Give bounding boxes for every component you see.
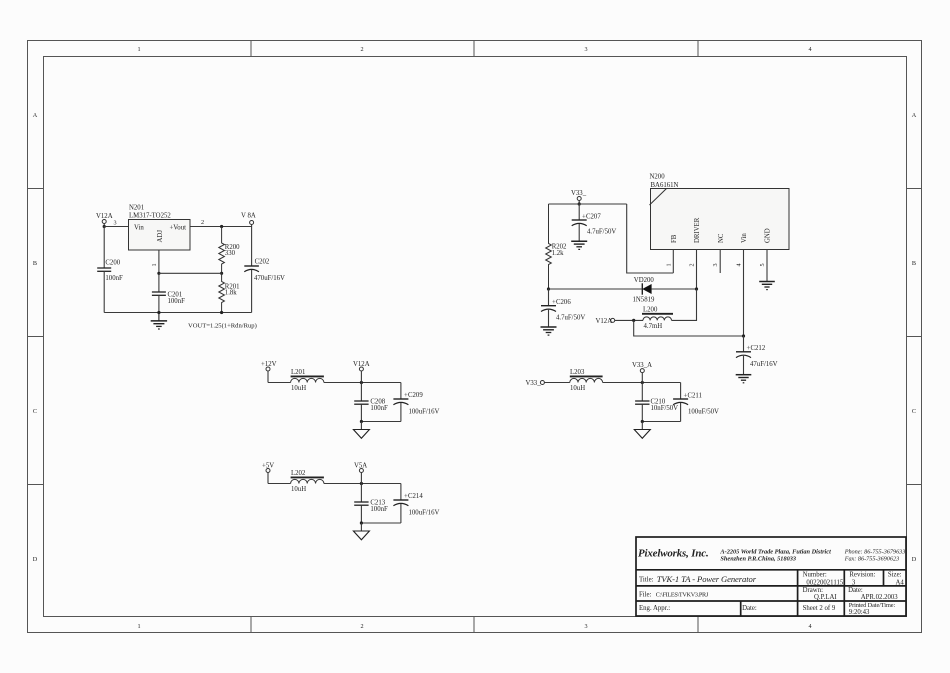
svg-text:10nF/50V: 10nF/50V: [651, 405, 679, 412]
capacitor C211: [673, 383, 719, 422]
resistor R202: [546, 204, 567, 289]
svg-text:Date:: Date:: [742, 605, 757, 612]
svg-text:100nF: 100nF: [168, 298, 186, 305]
svg-text:V33_A: V33_A: [632, 362, 652, 369]
capacitor C206: [541, 289, 585, 327]
svg-text:C212: C212: [751, 345, 766, 352]
svg-text:Revision:: Revision:: [849, 571, 875, 578]
node V8A: [241, 213, 256, 227]
svg-text:Vin: Vin: [741, 233, 748, 243]
svg-text:V33_: V33_: [526, 380, 542, 387]
node V12A: [353, 361, 370, 383]
svg-text:TVK-1 TA - Power Generator: TVK-1 TA - Power Generator: [657, 574, 757, 584]
svg-text:FB: FB: [671, 234, 678, 243]
svg-text:VOUT=1.25(1+Rdn/Rup): VOUT=1.25(1+Rdn/Rup): [188, 323, 257, 330]
svg-text:LM317-TO252: LM317-TO252: [129, 213, 171, 220]
svg-text:C202: C202: [255, 259, 270, 266]
node V33_: [571, 190, 587, 204]
svg-text:100uF/50V: 100uF/50V: [688, 408, 719, 415]
svg-text:Vin: Vin: [134, 225, 144, 232]
svg-text:N200: N200: [650, 174, 666, 181]
capacitor C208: [354, 383, 388, 422]
junction: [220, 225, 223, 228]
svg-text:1.8k: 1.8k: [225, 290, 237, 297]
svg-text:C209: C209: [408, 392, 423, 399]
ground (earth) C212: [736, 375, 752, 383]
ground (triangle): [353, 422, 369, 439]
svg-text:100uF/16V: 100uF/16V: [409, 509, 440, 516]
wire: [324, 483, 401, 485]
junction: [641, 381, 644, 384]
wire ADJ to divider: [159, 272, 222, 274]
svg-text:C211: C211: [688, 393, 702, 400]
inductor L201: [291, 369, 324, 392]
svg-text:100nF: 100nF: [370, 405, 388, 412]
capacitor C201: [152, 273, 185, 312]
capacitor C209: [393, 383, 439, 422]
ground (earth) C207: [571, 241, 587, 249]
capacitor C200: [97, 227, 123, 313]
svg-text:00220021115: 00220021115: [806, 579, 843, 586]
svg-text:D: D: [912, 556, 917, 563]
pin number 3 (NC stub): [712, 250, 720, 274]
svg-text:Number:: Number:: [803, 571, 827, 578]
svg-text:A: A: [33, 112, 38, 119]
svg-text:B: B: [33, 260, 37, 267]
svg-text:4.7mH: 4.7mH: [644, 323, 663, 330]
wire: [104, 226, 128, 228]
svg-text:2: 2: [201, 219, 204, 226]
node V5A: [354, 463, 367, 484]
svg-text:APR.02.2003: APR.02.2003: [861, 594, 899, 601]
svg-text:Title:: Title:: [639, 576, 654, 583]
node V33_A: [632, 362, 652, 383]
junction: [547, 287, 550, 290]
svg-text:D: D: [33, 556, 38, 563]
svg-text:V12A: V12A: [353, 361, 370, 368]
IC N200 BA6161N: [650, 174, 790, 250]
wire to diode: [549, 288, 642, 290]
svg-text:V33_: V33_: [571, 190, 587, 197]
wire: [544, 382, 569, 384]
svg-text:1: 1: [665, 263, 672, 266]
pin number 5: [759, 250, 767, 282]
svg-text:3: 3: [712, 263, 719, 266]
svg-text:3: 3: [114, 220, 117, 227]
diode VD200 1N5819: [633, 277, 656, 304]
svg-text:3: 3: [584, 46, 587, 53]
svg-text:2: 2: [689, 263, 696, 266]
svg-text:V 8A: V 8A: [241, 213, 256, 220]
svg-text:C: C: [33, 408, 37, 415]
node V12A: [96, 213, 113, 227]
junction: [695, 287, 698, 290]
node +12V: [261, 361, 277, 383]
capacitor C212: [736, 336, 778, 375]
svg-text:4.7uF/50V: 4.7uF/50V: [556, 315, 585, 322]
svg-text:File:: File:: [639, 592, 652, 599]
svg-text:5: 5: [759, 263, 766, 266]
svg-text:3: 3: [584, 623, 587, 630]
wire: [268, 483, 291, 485]
wire V12A to Vin: [634, 320, 744, 336]
svg-text:10uH: 10uH: [570, 385, 585, 392]
svg-text:1.2k: 1.2k: [552, 250, 564, 257]
svg-text:470uF/16V: 470uF/16V: [254, 275, 285, 282]
svg-text:4: 4: [808, 623, 811, 630]
svg-text:C200: C200: [105, 260, 120, 267]
svg-text:BA6161N: BA6161N: [651, 182, 679, 189]
capacitor C213: [354, 484, 388, 524]
wire: [361, 421, 401, 423]
ground (triangle): [634, 422, 650, 439]
svg-text:4.7uF/50V: 4.7uF/50V: [587, 228, 616, 235]
svg-text:3: 3: [852, 579, 856, 586]
svg-text:L200: L200: [643, 307, 658, 314]
junction: [220, 272, 223, 275]
svg-text:Sheet 2 of 9: Sheet 2 of 9: [803, 605, 836, 612]
svg-text:C207: C207: [586, 213, 601, 220]
junction: [578, 202, 581, 205]
wire: [642, 421, 680, 423]
junction: [360, 381, 363, 384]
wire: [190, 226, 252, 228]
svg-text:Pixelworks, Inc.: Pixelworks, Inc.: [638, 548, 709, 560]
svg-text:C214: C214: [408, 493, 423, 500]
svg-text:L202: L202: [291, 470, 306, 477]
svg-text:L203: L203: [570, 369, 585, 376]
node V33_: [526, 380, 545, 387]
svg-text:V5A: V5A: [354, 463, 367, 470]
node +5V: [262, 463, 274, 484]
junction: [360, 521, 363, 524]
svg-text:Fax: 86-755-3690623: Fax: 86-755-3690623: [844, 556, 899, 563]
pin number 1 (ADJ): [151, 250, 159, 273]
inductor L200: [642, 307, 673, 330]
junction: [157, 272, 160, 275]
title block: [636, 537, 906, 616]
wire: [268, 382, 291, 384]
svg-text:NC: NC: [718, 233, 725, 243]
svg-text:+12V: +12V: [261, 361, 277, 368]
svg-text:47uF/16V: 47uF/16V: [750, 361, 778, 368]
svg-text:2: 2: [360, 623, 363, 630]
wire L200 to pin2: [672, 289, 697, 320]
svg-text:A4: A4: [896, 579, 905, 586]
capacitor C210: [635, 383, 678, 422]
svg-text:100nF: 100nF: [105, 275, 123, 282]
svg-text:1N5819: 1N5819: [633, 297, 656, 304]
svg-text:DRIVER: DRIVER: [694, 217, 701, 243]
junction: [632, 319, 635, 322]
wire: [603, 382, 681, 384]
svg-text:L201: L201: [291, 369, 305, 376]
svg-text:Shenzhen P.R.China, 518033: Shenzhen P.R.China, 518033: [720, 555, 796, 562]
resistor R200: [219, 227, 240, 274]
svg-text:1: 1: [137, 46, 140, 53]
svg-text:V12A: V12A: [96, 213, 113, 220]
svg-text:VD200: VD200: [634, 277, 655, 284]
svg-text:C:\FILES\TVKV3.PRJ: C:\FILES\TVKV3.PRJ: [656, 592, 709, 599]
pin number 1: [665, 250, 673, 274]
svg-text:100uF/16V: 100uF/16V: [409, 408, 440, 415]
junction: [360, 420, 363, 423]
svg-text:100nF: 100nF: [370, 506, 388, 513]
pin number 2: [689, 250, 697, 290]
svg-text:C206: C206: [556, 299, 571, 306]
op-amp regulator N201 LM317-TO252: [129, 205, 191, 251]
svg-text:4: 4: [808, 46, 811, 53]
svg-text:Q.P.LAI: Q.P.LAI: [814, 594, 837, 601]
svg-text:+5V: +5V: [262, 463, 274, 470]
node V12A: [596, 318, 615, 325]
svg-text:V12A: V12A: [596, 318, 613, 325]
junction: [360, 482, 363, 485]
SCHEMATIC: [96, 205, 285, 330]
svg-text:N201: N201: [129, 205, 144, 212]
svg-text:2: 2: [360, 46, 363, 53]
svg-text:10uH: 10uH: [291, 486, 306, 493]
capacitor C214: [393, 484, 439, 524]
junction: [103, 225, 106, 228]
pin number 4: [736, 250, 744, 337]
wire V33 rail: [549, 203, 627, 205]
svg-text:Size:: Size:: [888, 571, 902, 578]
svg-text:A: A: [912, 112, 917, 119]
wire bottom rail: [104, 312, 251, 314]
wire: [361, 522, 401, 524]
junction: [641, 420, 644, 423]
svg-text:9:20:43: 9:20:43: [849, 609, 870, 616]
svg-text:10uH: 10uH: [291, 385, 306, 392]
svg-text:+Vout: +Vout: [169, 225, 186, 232]
svg-text:4: 4: [736, 263, 743, 266]
capacitor C207: [572, 204, 617, 241]
wire: [651, 288, 696, 290]
ground (triangle): [353, 523, 369, 540]
svg-text:ADJ: ADJ: [157, 230, 164, 243]
svg-text:GND: GND: [765, 228, 772, 243]
ground (earth) C206: [541, 327, 557, 335]
wire down to FB: [627, 204, 674, 273]
inductor L202: [291, 470, 324, 493]
resistor R201: [219, 273, 240, 311]
wire: [324, 382, 401, 384]
wire: [615, 319, 643, 321]
ground (earth): [151, 313, 167, 330]
inductor L203: [570, 369, 603, 392]
junction: [157, 311, 160, 314]
svg-text:C: C: [912, 408, 916, 415]
junction: [220, 311, 223, 314]
ground (earth) pin5: [759, 282, 775, 290]
svg-text:B: B: [912, 260, 916, 267]
svg-text:1: 1: [137, 623, 140, 630]
svg-text:Eng. Appr.:: Eng. Appr.:: [639, 605, 670, 612]
svg-text:1: 1: [151, 263, 158, 266]
junction: [742, 334, 745, 337]
capacitor C202: [244, 227, 285, 313]
svg-text:330: 330: [225, 250, 236, 257]
